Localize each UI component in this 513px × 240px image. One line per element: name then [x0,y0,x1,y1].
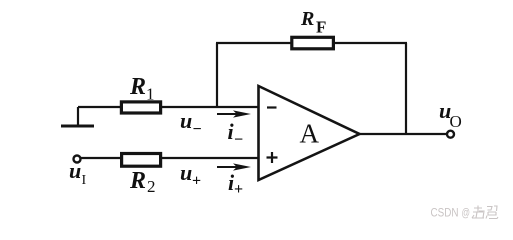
op-amp inverting pin mark (minus) [267,106,277,108]
wire: R1 to op-amp inverting input [161,106,259,108]
wire: op-amp output to terminal [360,133,448,135]
svg-text:CSDN: CSDN [431,206,459,220]
terminal u_I [74,156,81,163]
wire: ground to R1 (inverting input line, left) [78,106,122,108]
svg-text:@: @ [462,206,471,220]
watermark CSDN [431,206,499,220]
svg-text:A: A [300,119,320,149]
ground [61,107,94,126]
svg-text:+: + [234,181,243,198]
svg-text:F: F [316,18,326,37]
svg-text:−: − [193,121,202,138]
current arrow i+ [217,163,251,170]
wire: u_I terminal to R2 (non-inverting line, left) [81,157,122,159]
svg-text:−: − [234,132,243,149]
svg-text:u: u [180,160,192,185]
wire: feedback top, right of RF [332,42,407,44]
wire: feedback top, left of RF [216,42,293,44]
svg-text:O: O [450,112,462,131]
wire: feedback right vertical down to output [405,43,407,135]
wire: feedback left vertical (node at inverting input) [216,43,218,107]
resistor R1 [121,102,160,113]
svg-text:R: R [129,74,146,100]
svg-text:I: I [82,173,87,188]
svg-text:R: R [300,8,314,30]
resistor R2 [122,154,161,167]
resistor RF [292,37,334,49]
op-amp non-inverting pin mark (plus) [267,152,278,163]
svg-text:u: u [180,108,192,133]
svg-text:1: 1 [146,85,155,104]
op-amp U1 triangle [259,86,360,180]
wire: R2 to op-amp non-inverting input [161,157,259,159]
svg-text:R: R [129,168,146,194]
svg-text:u: u [69,158,81,183]
svg-text:2: 2 [147,177,156,196]
current arrow i- [217,110,251,117]
terminal u_O [447,131,454,138]
svg-text:+: + [192,173,201,190]
